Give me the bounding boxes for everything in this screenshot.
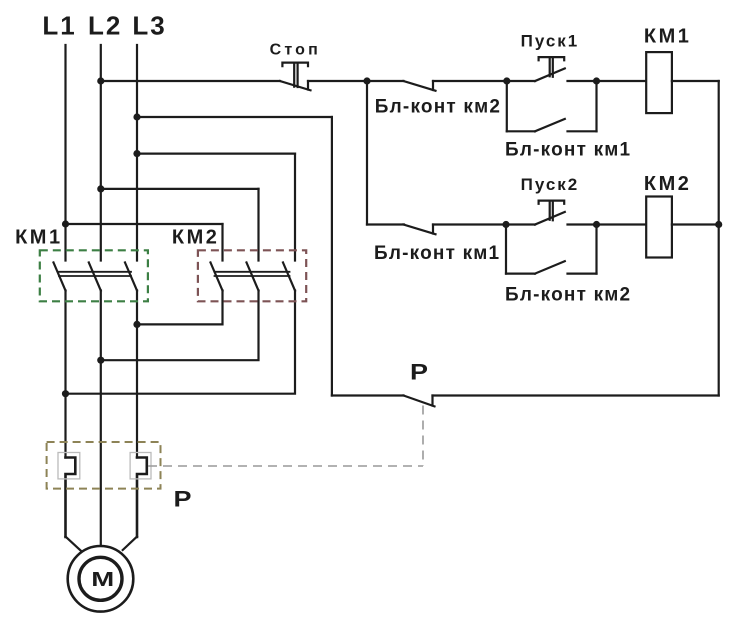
wire KM1 coil to right rail — [672, 80, 719, 82]
contact NC Bl-kont km2 blade — [404, 81, 436, 91]
wire KM2 pole3 top lead — [294, 154, 296, 261]
wire rung2 to NC km1 — [367, 223, 404, 225]
wire KM2 pole2 out to L2 column — [101, 291, 259, 361]
wire KM2 pole3 out to L1 column — [66, 291, 296, 394]
pushbutton Pusk1 actuator T-bar — [539, 57, 565, 60]
contact KM2 pole2 blade — [247, 263, 259, 291]
wire right rail bottom to P contact — [433, 394, 719, 396]
wire L2 tap to KM2 pole2 — [101, 188, 259, 190]
pushbutton Pusk2 actuator stem — [550, 201, 553, 221]
pushbutton Pusk2 actuator T-bar — [539, 201, 565, 204]
svg-text:L3: L3 — [132, 11, 166, 41]
node km2 pole1 out — [133, 321, 140, 328]
contact NC Bl-kont km1 blade — [404, 225, 436, 235]
svg-text:Пуск1: Пуск1 — [521, 31, 580, 50]
dashed link P horizontal — [148, 465, 423, 467]
node L2-stop — [97, 77, 104, 84]
contact KM2 pole3 blade — [283, 263, 295, 291]
coil KM1 — [646, 52, 672, 113]
box KM2 red dashed — [198, 250, 306, 301]
wire holding branch right vertical — [595, 81, 597, 131]
pushbutton Pusk1 actuator stem — [550, 57, 553, 77]
node L2 km2 pole2 tap — [97, 185, 104, 192]
box thermal relay P dashed — [47, 442, 161, 489]
svg-text:Бл-конт км1: Бл-конт км1 — [374, 243, 500, 264]
contact KM1 pole2 blade — [89, 263, 101, 291]
contact KM1 pole1 blade — [54, 263, 66, 291]
wire rung2 holding branch bottom right — [568, 273, 597, 275]
wire motor lead right slant — [123, 537, 137, 550]
pushbutton Pusk2 NO blade — [535, 212, 565, 225]
wire Pusk2 to KM2 coil — [568, 223, 647, 225]
node L1 km2 pole1 tap — [62, 220, 69, 227]
linkage bar KM2 — [215, 272, 290, 276]
wire motor lead left slant — [66, 537, 81, 551]
wire rung2 holding branch bottom left — [506, 273, 535, 275]
svg-text:Р: Р — [174, 487, 192, 512]
pushbutton Stop right lead drop — [307, 81, 309, 90]
wire L2 feeder vertical top — [100, 45, 102, 261]
svg-text:Бл-конт км2: Бл-конт км2 — [505, 285, 631, 306]
wire KM2 pole1 top lead — [221, 224, 223, 261]
node rung2 left — [502, 221, 509, 228]
node km2 pole2 out — [97, 357, 104, 364]
pushbutton Stop NC blade — [280, 81, 311, 90]
svg-text:КМ1: КМ1 — [644, 26, 692, 48]
svg-text:Пуск2: Пуск2 — [521, 175, 580, 194]
svg-text:КМ2: КМ2 — [172, 227, 220, 249]
contact NC Bl-kont km1 right drop — [432, 225, 434, 234]
svg-text:Р: Р — [410, 360, 428, 385]
wire L1 feeder vertical top — [64, 45, 66, 261]
heater frame 1 — [58, 453, 80, 479]
wire Stop to node A — [308, 80, 367, 82]
wire NC km1 to Pusk2 — [433, 223, 535, 225]
node rung1 right — [593, 77, 600, 84]
node B rung1 left — [503, 77, 510, 84]
wire holding branch bottom left — [507, 130, 535, 132]
wire KM2 pole2 top lead — [257, 189, 259, 261]
svg-text:L1: L1 — [42, 11, 76, 41]
heater frame 2 — [130, 453, 151, 479]
wire node A to NC km2 — [367, 80, 404, 82]
wire L3 feeder vertical top — [136, 45, 138, 261]
node right rail rung2 — [715, 221, 722, 228]
wire L1 below KM1 pole1 — [64, 291, 66, 458]
contact KM1 pole3 blade — [125, 263, 137, 291]
wire rung1 holding branch left vertical — [506, 81, 508, 131]
box KM1 green dashed — [40, 250, 148, 301]
wire rung2 holding branch right vertical — [595, 225, 597, 274]
node L3 control return — [133, 113, 140, 120]
contact P NC blade — [404, 396, 435, 407]
thermal element P heater1 — [66, 458, 76, 538]
pushbutton Stop actuator T-bar — [282, 63, 308, 67]
node L3 km2 pole3 tap — [133, 150, 140, 157]
coil KM2 — [646, 197, 672, 258]
wire L3 tap control return — [137, 116, 332, 118]
linkage bar KM1 — [59, 272, 131, 276]
node rung2 right — [593, 221, 600, 228]
node km2 pole3 out — [62, 390, 69, 397]
svg-text:М: М — [91, 569, 114, 591]
motor circle inner — [79, 557, 122, 600]
contact P NC right drop — [431, 396, 433, 406]
wire holding branch bottom right — [568, 130, 597, 132]
wire L2 below KM1 pole2 to motor — [100, 291, 102, 547]
wire KM2 coil to right rail — [672, 223, 719, 225]
svg-text:Бл-конт км1: Бл-конт км1 — [505, 140, 631, 161]
wire node A down to rung2 — [366, 81, 368, 225]
wire L2 tap to Stop button — [101, 80, 280, 82]
svg-text:L2: L2 — [88, 11, 122, 41]
pushbutton Pusk1 NO blade — [535, 68, 565, 81]
wire Pusk1 to KM1 coil — [568, 80, 647, 82]
dashed link P vertical — [422, 406, 424, 467]
pushbutton Stop actuator stem — [294, 63, 297, 87]
contact NC Bl-kont km2 right drop — [432, 81, 434, 90]
svg-text:Бл-конт км2: Бл-конт км2 — [375, 96, 501, 117]
wire right rail vertical — [718, 81, 720, 396]
wire L3 below KM1 pole3 — [136, 291, 138, 458]
wire rung2 holding branch left vertical — [505, 225, 507, 274]
thermal element P heater2 — [137, 458, 147, 538]
node A rung split — [363, 77, 370, 84]
contact KM2 pole1 blade — [211, 263, 223, 291]
wire KM2 pole1 out to L3 column — [137, 291, 223, 325]
contact NO Bl-kont km2 blade — [535, 261, 565, 273]
svg-text:Стоп: Стоп — [270, 41, 321, 58]
wire NC km2 to node B — [433, 80, 535, 82]
wire L3 tap to KM2 pole3 — [137, 153, 295, 155]
svg-text:КМ1: КМ1 — [15, 227, 63, 249]
wire P contact left lead — [332, 394, 404, 396]
wire L1 tap to KM2 pole1 — [66, 223, 223, 225]
contact NO Bl-kont km1 blade — [535, 119, 565, 131]
motor circle outer — [68, 546, 134, 612]
wire control return vertical — [331, 117, 333, 396]
svg-text:КМ2: КМ2 — [644, 173, 692, 195]
